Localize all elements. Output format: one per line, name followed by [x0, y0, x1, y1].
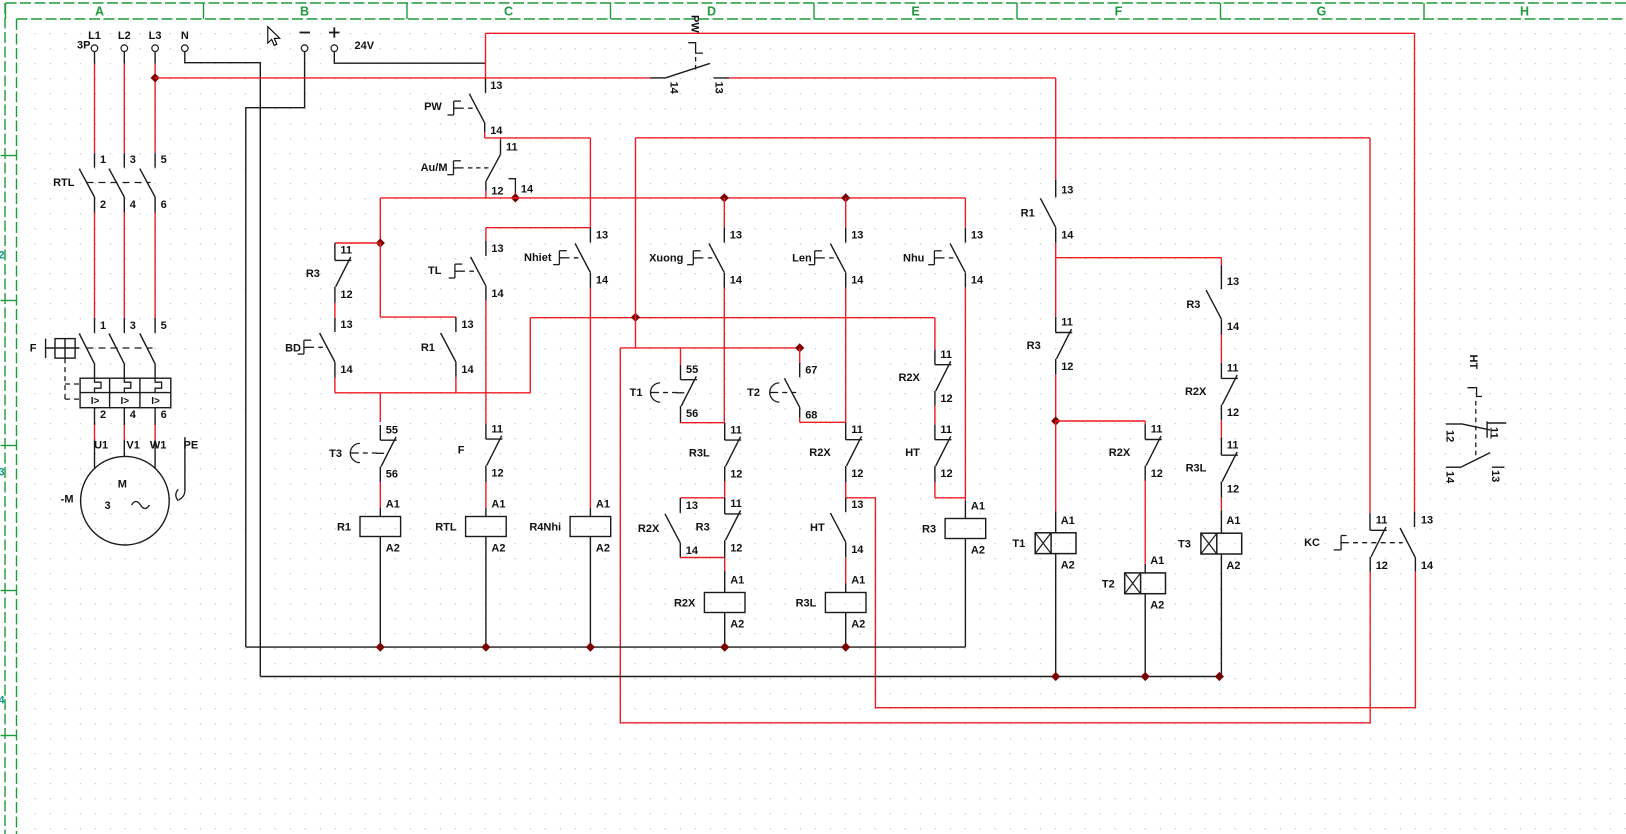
wire rotated PW to R1-13	[729, 77, 1056, 79]
wire T1-56 to R3L-11	[680, 406, 682, 423]
wire TL-14 down to feed rail	[485, 286, 487, 300]
svg-text:12: 12	[1227, 407, 1239, 419]
svg-text:R2X: R2X	[1185, 386, 1207, 398]
wire R2X-12 down	[1220, 405, 1222, 420]
svg-text:12: 12	[940, 468, 952, 480]
svg-text:N: N	[181, 30, 189, 42]
svg-text:A2: A2	[1150, 600, 1164, 612]
wire PE with motor frame connection	[184, 437, 186, 491]
svg-text:W1: W1	[150, 440, 167, 452]
contact Au/M selector NO 11-12	[500, 138, 502, 140]
contact F NC 11-12	[485, 393, 487, 424]
svg-text:R1: R1	[1021, 207, 1035, 219]
terminal minus 24V	[301, 45, 308, 52]
svg-text:6: 6	[161, 199, 167, 211]
svg-text:13: 13	[491, 243, 503, 255]
wire phase bus L3 to rotated PW	[155, 77, 650, 79]
svg-text:3P: 3P	[77, 40, 90, 52]
contact R2X NC 11-12 (column G lower)	[1220, 363, 1222, 378]
node Xuong branch junction	[720, 193, 729, 202]
svg-text:PW: PW	[424, 101, 442, 113]
wire top red bus to KC-13	[486, 32, 1415, 34]
svg-text:RTL: RTL	[53, 177, 75, 189]
coil R4Nhi	[570, 517, 611, 537]
svg-text:A2: A2	[386, 543, 400, 555]
contact HT NC 11-12	[934, 391, 936, 406]
svg-text:Xuong: Xuong	[649, 253, 683, 265]
svg-text:13: 13	[686, 500, 698, 512]
svg-text:T1: T1	[1012, 538, 1025, 550]
svg-text:12: 12	[491, 468, 503, 480]
node L3 tap junction	[151, 73, 160, 82]
coil R3L	[825, 593, 866, 613]
motor M 3-phase	[81, 456, 170, 545]
svg-text:2: 2	[0, 250, 5, 262]
wire breaker to motor lead 3	[154, 408, 156, 425]
node T-coils feed junction	[1051, 416, 1060, 425]
svg-text:12: 12	[340, 289, 352, 301]
wire bottom bus minus 24V	[246, 646, 966, 648]
svg-text:TL: TL	[428, 265, 442, 277]
svg-text:55: 55	[386, 424, 398, 436]
svg-text:14: 14	[851, 544, 864, 556]
svg-text:13: 13	[1421, 515, 1433, 527]
svg-text:13: 13	[851, 230, 863, 242]
svg-text:14: 14	[851, 275, 864, 287]
wire HT-12 to coil R3	[934, 466, 936, 482]
svg-text:A2: A2	[851, 619, 865, 631]
contact R1 NO 13-14 (column F)	[1040, 198, 1055, 227]
svg-text:14: 14	[340, 364, 353, 376]
svg-text:I>: I>	[151, 396, 160, 407]
svg-text:-M: -M	[61, 494, 74, 506]
svg-text:R2X: R2X	[1109, 447, 1131, 459]
wire T3-56 to coil R1	[379, 467, 381, 482]
svg-text:14: 14	[490, 125, 503, 137]
coil T1 (timer)	[1035, 533, 1076, 554]
svg-text:67: 67	[805, 364, 817, 376]
wire L3 phase drop	[154, 52, 156, 64]
svg-text:14: 14	[971, 275, 984, 287]
wire coil feed rail	[335, 392, 530, 394]
wire R3L-12 down	[724, 466, 726, 481]
svg-text:T1: T1	[630, 387, 643, 399]
wire R2X-12 junction to KC-14 rail	[845, 466, 847, 482]
svg-text:A2: A2	[971, 545, 985, 557]
node timer coil drops on N bus	[1051, 672, 1060, 681]
wire RTL to breaker F pole 2	[123, 197, 125, 213]
svg-text:A1: A1	[596, 499, 610, 511]
svg-text:R2X: R2X	[638, 523, 660, 535]
svg-text:R2X: R2X	[898, 372, 920, 384]
terminal L1	[91, 45, 98, 52]
svg-text:11: 11	[1151, 424, 1163, 436]
svg-text:13: 13	[712, 82, 724, 94]
svg-text:M: M	[118, 479, 127, 491]
svg-text:R1: R1	[421, 342, 435, 354]
wire R3-14 down	[1220, 319, 1222, 334]
svg-text:12: 12	[1376, 560, 1388, 572]
svg-text:6: 6	[161, 409, 167, 421]
svg-text:PE: PE	[184, 440, 199, 452]
coil T3 (timer)	[1201, 533, 1242, 554]
svg-text:14: 14	[1444, 471, 1456, 484]
svg-text:11: 11	[851, 424, 863, 436]
contact R2X NC 11-12 (column G)	[1144, 421, 1146, 425]
svg-text:A1: A1	[730, 575, 744, 587]
svg-text:U1: U1	[94, 440, 108, 452]
svg-text:PW: PW	[689, 15, 701, 33]
svg-text:Au/M: Au/M	[421, 162, 448, 174]
svg-text:A2: A2	[1061, 560, 1075, 572]
svg-text:13: 13	[1061, 184, 1073, 196]
node rung bus left junction	[376, 238, 385, 247]
wire Len-14 down	[845, 273, 847, 288]
svg-text:11: 11	[730, 424, 742, 436]
svg-text:11: 11	[340, 245, 352, 257]
svg-text:A: A	[95, 5, 104, 19]
wire plus 24V to PW	[334, 52, 485, 64]
svg-text:56: 56	[386, 469, 398, 481]
svg-text:A2: A2	[491, 543, 505, 555]
wire junction to R2X column G	[1056, 420, 1146, 422]
contact HT rotated NO 13-14	[1446, 466, 1461, 468]
svg-text:2: 2	[100, 409, 106, 421]
svg-text:C: C	[504, 5, 513, 19]
wire minus down to bottom bus	[246, 52, 305, 648]
svg-text:2: 2	[100, 199, 106, 211]
svg-text:I>: I>	[120, 396, 129, 407]
svg-text:A1: A1	[491, 499, 505, 511]
contact HT rotated NC 11-12	[1446, 423, 1461, 425]
svg-text:L2: L2	[118, 30, 131, 42]
svg-text:T3: T3	[1178, 539, 1191, 551]
svg-text:F: F	[30, 343, 37, 355]
contact R3L NC 11-12	[724, 423, 726, 440]
mouse cursor	[268, 27, 280, 46]
coil R1	[360, 517, 401, 537]
svg-text:T2: T2	[1102, 578, 1115, 590]
svg-text:56: 56	[686, 408, 698, 420]
contact T3 timer NC 55-56	[379, 393, 381, 422]
svg-text:R3: R3	[922, 524, 936, 536]
wire BD-14 to coil feed rail	[334, 362, 336, 378]
svg-text:5: 5	[161, 154, 167, 166]
svg-text:11: 11	[940, 424, 952, 436]
svg-text:E: E	[911, 5, 919, 19]
contact R3 NC 11-12	[334, 243, 336, 260]
svg-text:HT: HT	[810, 522, 825, 534]
svg-text:14: 14	[1227, 321, 1240, 333]
svg-text:13: 13	[971, 230, 983, 242]
wire HT-14 to coil R3L	[845, 542, 847, 557]
svg-text:11: 11	[506, 141, 518, 153]
contact R2X NC 11-12 (column E)	[845, 422, 847, 439]
wire AuM-12 to rung bus	[485, 181, 487, 190]
svg-text:14: 14	[596, 275, 609, 287]
wire main rung bus	[380, 197, 965, 199]
svg-text:24V: 24V	[355, 40, 375, 52]
svg-text:13: 13	[1227, 276, 1239, 288]
terminal L2	[121, 45, 128, 52]
wire Nhiet-14 to coil R4Nhi	[589, 273, 591, 288]
svg-text:13: 13	[730, 230, 742, 242]
wire net2 top bus to KC-11	[636, 137, 1371, 139]
svg-text:A1: A1	[971, 501, 985, 513]
wire breaker to motor lead 1	[94, 408, 96, 425]
svg-text:BD: BD	[285, 343, 301, 355]
svg-text:12: 12	[851, 468, 863, 480]
contact KC NO 13-14	[1400, 528, 1415, 558]
svg-text:11: 11	[1487, 427, 1499, 439]
contact R3L NC 11-12 (column G)	[1220, 438, 1222, 456]
svg-text:R3: R3	[1027, 340, 1041, 352]
coil R3	[945, 519, 986, 539]
svg-text:55: 55	[686, 364, 698, 376]
svg-text:A1: A1	[1150, 555, 1164, 567]
svg-text:RTL: RTL	[435, 522, 457, 534]
svg-text:4: 4	[130, 199, 137, 211]
svg-text:A2: A2	[596, 543, 610, 555]
contact T1 timer NC 55-56	[680, 348, 682, 365]
svg-text:13: 13	[490, 80, 502, 92]
svg-text:KC: KC	[1304, 537, 1320, 549]
svg-text:13: 13	[461, 319, 473, 331]
svg-text:R2X: R2X	[674, 598, 696, 610]
contact R3 NC 11-12 (pair)	[724, 498, 726, 514]
svg-text:11: 11	[1227, 439, 1239, 451]
svg-text:14: 14	[491, 288, 504, 300]
svg-text:11: 11	[730, 498, 742, 510]
svg-text:5: 5	[161, 320, 167, 332]
svg-text:R4Nhi: R4Nhi	[529, 522, 561, 534]
svg-text:R3: R3	[1186, 299, 1200, 311]
wire parallel pair top link	[680, 497, 724, 499]
svg-text:T3: T3	[329, 448, 342, 460]
contact R2X NO 13-14	[679, 498, 681, 513]
node T2 branch junction	[795, 343, 804, 352]
contact Nhiet pushbutton NO 13-14	[589, 228, 591, 243]
svg-text:12: 12	[1061, 361, 1073, 373]
svg-text:11: 11	[1227, 363, 1239, 375]
wire Nhu-14 down to coil R3	[964, 273, 966, 288]
svg-text:A1: A1	[386, 499, 400, 511]
svg-text:4: 4	[130, 409, 137, 421]
svg-text:Nhiet: Nhiet	[524, 252, 552, 264]
svg-text:R3L: R3L	[796, 598, 817, 610]
contact R2X NC 11-12 (self-hold rail)	[934, 318, 936, 350]
svg-text:68: 68	[805, 409, 817, 421]
wire branch to R3 NO	[1056, 257, 1222, 259]
wire Xuong-14 down	[723, 273, 725, 288]
svg-text:12: 12	[730, 542, 742, 554]
svg-text:A1: A1	[1061, 515, 1075, 527]
svg-text:3: 3	[0, 467, 5, 479]
svg-text:14: 14	[521, 184, 534, 196]
svg-text:A2: A2	[1226, 560, 1240, 572]
coil RTL	[466, 517, 507, 537]
wire L1 phase drop	[94, 52, 96, 64]
svg-text:A1: A1	[851, 575, 865, 587]
svg-text:A1: A1	[1226, 515, 1240, 527]
coil R2X	[704, 593, 745, 613]
node AuM-14 junction	[511, 193, 520, 202]
wire L2 phase drop	[123, 52, 125, 64]
svg-text:L3: L3	[149, 30, 162, 42]
svg-text:F: F	[458, 445, 465, 457]
svg-text:12: 12	[940, 393, 952, 405]
terminal L3	[152, 45, 159, 52]
svg-text:14: 14	[1421, 560, 1434, 572]
wire self-hold rail	[530, 317, 935, 319]
contact KC NC 11-12	[1370, 529, 1387, 531]
svg-text:HT: HT	[1467, 355, 1479, 370]
svg-text:3: 3	[130, 154, 136, 166]
contact Len pushbutton NO 13-14	[845, 198, 847, 228]
svg-text:V1: V1	[126, 440, 139, 452]
svg-text:12: 12	[1151, 468, 1163, 480]
wire T2-68 to R2X-11	[799, 407, 801, 417]
svg-text:H: H	[1520, 5, 1529, 19]
svg-text:11: 11	[491, 423, 503, 435]
contact R1 NO 13-14 (column C)	[455, 317, 457, 332]
svg-text:R3: R3	[306, 268, 320, 280]
terminal N	[182, 45, 189, 52]
wire R1-14 down	[1055, 228, 1057, 243]
contact Xuong pushbutton NO 13-14	[723, 198, 725, 228]
svg-text:A2: A2	[730, 619, 744, 631]
wire timer feed bus	[620, 347, 799, 349]
wire R3L-12 to coil T3	[1220, 482, 1222, 498]
svg-text:14: 14	[686, 545, 699, 557]
contact PW pushbutton NO 13-14	[485, 78, 487, 93]
svg-text:14: 14	[1061, 229, 1074, 241]
wire F-12 to coil RTL	[485, 465, 487, 482]
svg-text:12: 12	[491, 186, 503, 198]
svg-text:12: 12	[1227, 484, 1239, 496]
svg-text:I>: I>	[91, 396, 100, 407]
svg-text:14: 14	[667, 82, 679, 95]
contact R3 NC 11-12 (column F)	[1055, 317, 1057, 332]
wire bottom bus N	[260, 676, 1219, 678]
wire pair to coil R2X	[724, 558, 726, 572]
svg-text:R3L: R3L	[1186, 463, 1207, 475]
node Len branch junction	[841, 193, 850, 202]
wire R3 branch	[335, 242, 380, 244]
svg-text:R1: R1	[337, 522, 351, 534]
svg-text:Len: Len	[792, 253, 812, 265]
svg-text:F: F	[1115, 5, 1123, 19]
wire parallel pair bottom link	[680, 557, 724, 559]
svg-text:1: 1	[100, 320, 106, 332]
svg-text:HT: HT	[905, 447, 920, 459]
svg-text:11: 11	[1061, 317, 1073, 329]
AuM terminal 14 stub	[509, 179, 516, 193]
wire 24V red riser to top bus	[485, 33, 487, 78]
contact TL pushbutton NO 13-14	[485, 228, 487, 241]
wire PW-14 to control bus	[484, 123, 486, 132]
svg-text:12: 12	[730, 469, 742, 481]
wire breaker to motor lead 2	[123, 408, 125, 425]
wire R3-12 to T1 coil junction	[1055, 359, 1057, 374]
svg-text:12: 12	[1444, 430, 1456, 442]
svg-text:14: 14	[461, 364, 474, 376]
contact BD pushbutton NO 13-14	[334, 287, 336, 303]
wire RTL to breaker F pole 1	[94, 197, 96, 213]
contact HT NO 13-14	[845, 498, 847, 512]
svg-text:1: 1	[100, 154, 106, 166]
node self-hold rail junction	[631, 313, 640, 322]
terminal plus 24V	[331, 45, 338, 52]
svg-text:14: 14	[730, 275, 743, 287]
contact T2 timer NO 67-68	[799, 348, 801, 363]
drawing frame border	[6, 2, 1626, 4]
wire N down to bottom bus	[185, 52, 260, 677]
svg-text:D: D	[707, 5, 716, 19]
wire riser net2 to self-hold rail	[635, 138, 637, 317]
svg-text:3: 3	[130, 320, 136, 332]
svg-text:11: 11	[1376, 515, 1388, 527]
svg-text:13: 13	[851, 499, 863, 511]
contact R3 NO 13-14 (column G)	[1220, 258, 1222, 266]
coil T2 (timer)	[1125, 573, 1166, 594]
svg-text:13: 13	[596, 230, 608, 242]
svg-text:3: 3	[105, 500, 111, 512]
wire bus PW-14 / TL-13 / Nhiet-13	[485, 137, 591, 139]
svg-text:Nhu: Nhu	[903, 253, 924, 265]
svg-text:R3: R3	[696, 521, 710, 533]
contact Nhu pushbutton NO 13-14	[964, 198, 966, 228]
svg-text:T2: T2	[747, 387, 760, 399]
svg-text:R2X: R2X	[809, 447, 831, 459]
node coil drops on minus bus	[376, 643, 385, 652]
svg-text:G: G	[1317, 5, 1327, 19]
svg-text:13: 13	[1489, 470, 1501, 482]
wire R2X-12 to coil T2	[1144, 466, 1146, 481]
contact PW NO rotated (top)	[665, 63, 710, 78]
svg-text:11: 11	[940, 349, 952, 361]
svg-text:B: B	[300, 5, 309, 19]
wire RTL to breaker F pole 3	[154, 197, 156, 213]
svg-text:13: 13	[340, 319, 352, 331]
overload trip box	[80, 378, 171, 408]
svg-text:R3L: R3L	[689, 448, 710, 460]
